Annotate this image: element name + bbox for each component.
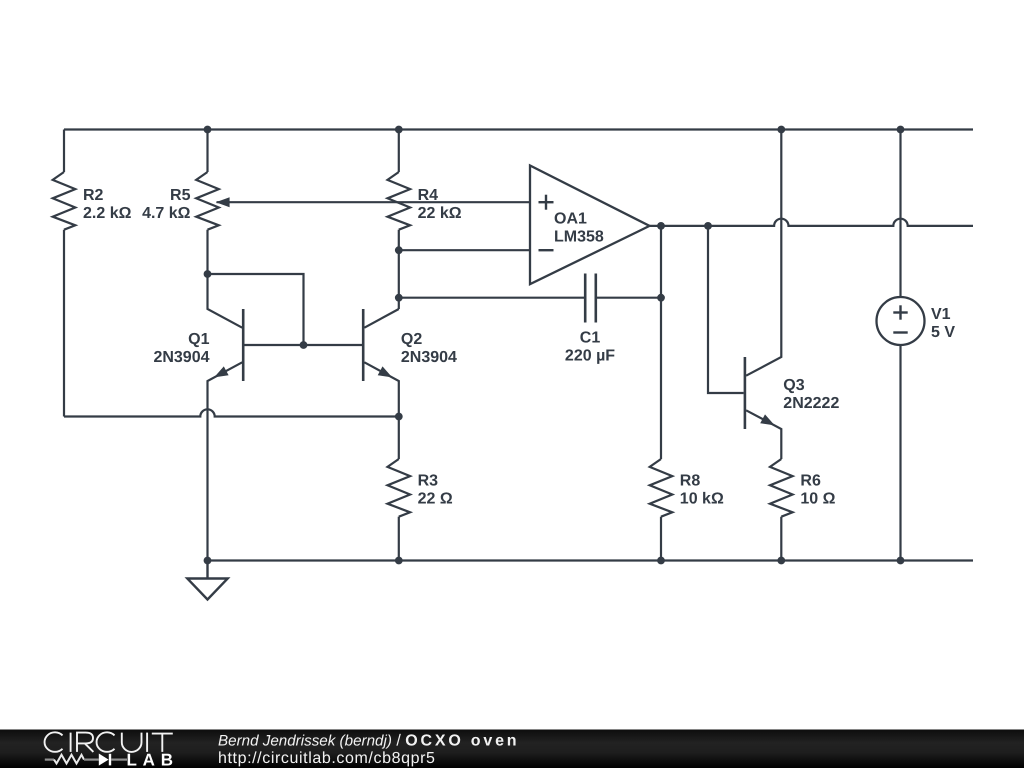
wire top rail V+ (64, 128, 973, 130)
wire V1 top lead (899, 130, 901, 298)
junction ground node R6 (777, 557, 785, 565)
transistor Q3 bar (744, 357, 747, 429)
svg-text:220 µF: 220 µF (565, 348, 615, 365)
svg-text:R6: R6 (800, 473, 821, 490)
wire R5 wiper to op-amp + input (217, 201, 531, 203)
Q3 emitter arrow (760, 414, 775, 425)
svg-text:2N3904: 2N3904 (401, 349, 457, 366)
svg-text:OA1: OA1 (554, 211, 587, 228)
CircuitLab logo resistor-diode art (45, 754, 127, 766)
transistor Q1 bar (242, 309, 245, 381)
op-amp OA1 triangle (530, 166, 650, 285)
wire R5 top lead (206, 130, 208, 173)
junction - input node (395, 246, 403, 254)
junction ground node V1 (897, 557, 905, 565)
junction C1 right node (657, 294, 665, 302)
svg-text:http://circuitlab.com/cb8qpr5: http://circuitlab.com/cb8qpr5 (218, 750, 436, 767)
transistor Q2 bar (362, 309, 365, 381)
V1 + symbol (893, 305, 907, 319)
svg-text:5 V: 5 V (931, 324, 955, 341)
wire R3 top lead (398, 417, 400, 460)
junction ground node R8 (657, 557, 665, 565)
Q2 emitter arrow (378, 366, 393, 377)
wire V1 bottom lead (899, 345, 901, 561)
svg-text:Q1: Q1 (188, 331, 209, 348)
wire R8 bottom lead (660, 517, 662, 561)
wire R4 top lead (398, 130, 400, 173)
junction ground node R3 (395, 557, 403, 565)
junction R4 / top rail (395, 126, 403, 134)
capacitor C1 plates (585, 274, 596, 323)
svg-text:Bernd Jendrissek (berndj) / OC: Bernd Jendrissek (berndj) / OCXO oven (218, 733, 519, 750)
V1 - symbol (893, 331, 907, 333)
resistor R8 (650, 459, 673, 517)
wire output node down to C1 right (660, 226, 662, 298)
resistor R6 (770, 459, 793, 517)
wire Q3 collector up to top rail (746, 130, 781, 376)
svg-text:Q3: Q3 (783, 377, 804, 394)
junction Q3 collector / top rail (777, 126, 785, 134)
op-amp - symbol (539, 249, 554, 251)
svg-text:2N3904: 2N3904 (153, 349, 209, 366)
svg-text:LAB: LAB (127, 751, 179, 768)
wire C1 right (596, 297, 661, 299)
svg-text:R3: R3 (418, 473, 439, 490)
ground rail (208, 559, 974, 561)
wire Q2 emitter (364, 362, 398, 416)
junction output node (657, 222, 665, 230)
svg-text:Q2: Q2 (401, 331, 422, 348)
wire Q1-Q2 base link (243, 344, 363, 346)
CircuitLab logo word CIRCUIT (45, 732, 173, 752)
svg-text:R4: R4 (418, 187, 439, 204)
junction R5 bottom node (204, 270, 212, 278)
svg-text:R2: R2 (83, 187, 104, 204)
Q1 emitter arrow (214, 366, 229, 377)
wire Q2 collector diagonal (364, 309, 398, 328)
wire C1 right node down to R8 (660, 298, 662, 459)
svg-text:2N2222: 2N2222 (783, 395, 839, 412)
junction Q3 base / output rail (704, 222, 712, 230)
resistor R2 (53, 172, 76, 230)
svg-text:10 Ω: 10 Ω (800, 491, 835, 508)
svg-text:4.7 kΩ: 4.7 kΩ (142, 205, 191, 222)
svg-text:2.2 kΩ: 2.2 kΩ (83, 205, 132, 222)
resistor R3 (388, 459, 411, 517)
junction C1 left node (395, 294, 403, 302)
svg-text:10 kΩ: 10 kΩ (680, 491, 724, 508)
wire Q1 emitter down to ground (208, 362, 243, 560)
voltage source V1 circle (877, 297, 925, 345)
junction ground node Q1 (204, 557, 212, 565)
wire R6 bottom lead (780, 517, 782, 561)
wire R4 bottom / Q2 collector riser (398, 230, 400, 309)
svg-text:C1: C1 (580, 330, 601, 347)
wire R5 bottom lead (206, 230, 208, 274)
wire Q3 emitter (746, 410, 781, 459)
wire Q3 base run (708, 226, 744, 393)
svg-text:V1: V1 (931, 306, 951, 323)
potentiometer R5 wiper arrow (216, 197, 230, 207)
junction base link node (300, 341, 308, 349)
svg-text:LM358: LM358 (554, 229, 604, 246)
svg-text:22 Ω: 22 Ω (418, 491, 453, 508)
wire Q1 collector (208, 274, 243, 328)
wire op-amp output rail with hops at Q3 and V1 (650, 219, 974, 226)
svg-text:R5: R5 (170, 187, 191, 204)
svg-text:22 kΩ: 22 kΩ (418, 205, 462, 222)
potentiometer R5 (196, 172, 219, 230)
junction emitter row node (395, 413, 403, 421)
wire emitter row with hop over Q1 emitter (64, 409, 399, 416)
wire C1 left (399, 297, 585, 299)
junction V1 / top rail (897, 126, 905, 134)
wire R5 bottom to base junction (208, 274, 304, 345)
svg-text:R8: R8 (680, 473, 701, 490)
footer bar (0, 730, 1024, 768)
wire R3 bottom lead (398, 517, 400, 561)
resistor R4 (388, 172, 411, 230)
junction R5 / top rail (204, 126, 212, 134)
ground symbol (187, 561, 227, 600)
wire R2 bottom lead down left side (63, 230, 65, 417)
wire R2 top lead (63, 130, 65, 173)
wire to op-amp - input (399, 249, 530, 251)
op-amp + symbol (539, 195, 554, 210)
